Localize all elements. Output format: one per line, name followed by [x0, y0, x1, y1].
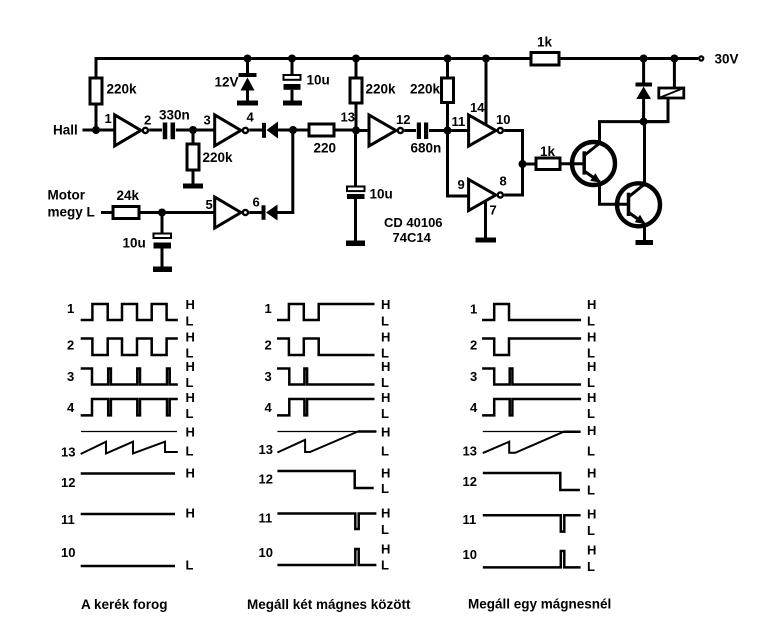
svg-text:H: H — [186, 330, 195, 345]
wire D4 to node E — [642, 99, 645, 122]
svg-text:Megáll két mágnes között: Megáll két mágnes között — [247, 597, 411, 612]
svg-text:4: 4 — [265, 400, 273, 415]
svg-text:6: 6 — [253, 195, 260, 210]
svg-text:Hall: Hall — [53, 123, 78, 138]
wire R2 to ground — [192, 170, 195, 184]
svg-text:3: 3 — [67, 369, 74, 384]
svg-text:H: H — [381, 359, 390, 374]
svg-text:L: L — [587, 444, 595, 459]
node on rail above D4 — [640, 55, 648, 63]
resistor R1 220k — [90, 78, 102, 104]
svg-text:L: L — [381, 481, 389, 496]
svg-text:10: 10 — [463, 547, 477, 562]
node col2 trace 4 — [265, 390, 391, 421]
svg-text:11: 11 — [61, 512, 75, 527]
svg-text:H: H — [186, 506, 195, 521]
svg-text:10: 10 — [61, 545, 75, 560]
svg-text:220: 220 — [314, 141, 337, 156]
node E — [640, 118, 648, 126]
svg-text:11: 11 — [259, 511, 273, 526]
node D (wired outputs) — [519, 160, 527, 168]
svg-text:10u: 10u — [123, 236, 146, 251]
resistor R8 24k — [113, 207, 139, 219]
svg-text:13: 13 — [259, 442, 273, 457]
svg-text:H: H — [186, 425, 195, 440]
svg-text:L: L — [587, 314, 595, 329]
svg-text:10: 10 — [259, 545, 273, 560]
svg-text:L: L — [186, 375, 194, 390]
node col1 trace 2 — [67, 330, 195, 361]
svg-text:L: L — [381, 406, 389, 421]
svg-text:L: L — [381, 558, 389, 573]
svg-text:12V: 12V — [215, 75, 239, 90]
node on rail above relay — [670, 55, 678, 63]
wire inverter 10 output down to node D — [504, 131, 522, 165]
wire Q2 emitter to ground — [643, 226, 646, 241]
transistor Q1 — [572, 142, 615, 185]
svg-text:3: 3 — [204, 113, 211, 128]
svg-text:H: H — [381, 425, 390, 440]
node on rail above R3 — [352, 55, 360, 63]
svg-text:3: 3 — [265, 369, 272, 384]
svg-text:9: 9 — [458, 177, 465, 192]
wire top rail left with corner above R1 — [96, 59, 531, 79]
svg-text:12: 12 — [396, 112, 410, 127]
resistor R3 220k — [350, 78, 362, 103]
svg-text:L: L — [587, 406, 595, 421]
svg-text:Megáll egy mágnesnél: Megáll egy mágnesnél — [468, 597, 611, 612]
svg-text:10: 10 — [496, 112, 510, 127]
wire node C to R5 — [293, 129, 309, 132]
svg-text:H: H — [381, 466, 390, 481]
svg-text:Motor: Motor — [48, 188, 86, 203]
wire pin 7 to ground — [484, 201, 487, 238]
op-amp U1C inverter pin13-12 — [369, 112, 410, 146]
svg-text:13: 13 — [341, 110, 355, 125]
diode D2 — [262, 205, 278, 221]
wire zener to ground — [246, 91, 249, 102]
svg-text:220k: 220k — [107, 82, 138, 97]
svg-text:8: 8 — [500, 174, 507, 189]
node col3 trace 13 — [463, 423, 597, 459]
wire node D to R7 — [523, 163, 537, 166]
svg-text:13: 13 — [463, 444, 477, 459]
wire Motor input stub — [101, 211, 113, 214]
wire node F to inverter 5 input — [162, 211, 215, 214]
svg-text:L: L — [587, 523, 595, 538]
ground under zener — [237, 101, 258, 106]
op-amp U1B inverter pin3-4 — [204, 110, 255, 146]
svg-text:330n: 330n — [159, 108, 190, 123]
wire inverter12 output to C5 — [404, 129, 416, 132]
svg-text:4: 4 — [470, 400, 478, 415]
op-amp U1A inverter pin1-2 — [105, 111, 152, 146]
wire Q2 collector up to node E — [643, 122, 646, 185]
resistor R5 220 — [309, 124, 334, 136]
node on rail for pin 14 supply — [482, 55, 490, 63]
wire relay to node E — [644, 98, 668, 122]
node B (pin 3) — [189, 126, 197, 134]
svg-text:L: L — [587, 483, 595, 498]
svg-text:CD 40106: CD 40106 — [384, 215, 443, 230]
node col3 trace 2 — [470, 330, 596, 361]
zener D3 12V — [215, 73, 257, 91]
resistor R2 220k — [187, 144, 199, 170]
node on rail above R4 — [444, 55, 452, 63]
node col1 trace 10 — [61, 545, 194, 573]
svg-text:H: H — [381, 330, 390, 345]
ground under C2 — [153, 267, 172, 273]
wire C3 to ground — [291, 90, 294, 101]
svg-text:L: L — [381, 375, 389, 390]
svg-text:L: L — [587, 375, 595, 390]
wire node 11 to inverter 14 input — [448, 129, 469, 132]
svg-text:1: 1 — [265, 301, 272, 316]
svg-text:7: 7 — [490, 203, 497, 218]
svg-text:14: 14 — [470, 100, 485, 115]
wire Hall input stub — [83, 129, 97, 132]
svg-text:H: H — [381, 390, 390, 405]
svg-text:megy L: megy L — [48, 205, 95, 220]
wire rail to C3 — [291, 59, 294, 76]
ground under R2 — [183, 184, 203, 189]
wire C5 to node 11 — [429, 129, 448, 132]
ground under Q2 — [636, 240, 654, 245]
node on rail above C3 — [288, 55, 296, 63]
wire D1 anode to node C — [278, 129, 293, 132]
svg-text:2: 2 — [144, 113, 151, 128]
wire Q1 emitter to Q2 base — [600, 182, 628, 205]
node C (diode junction) — [289, 126, 297, 134]
svg-text:13: 13 — [61, 445, 75, 460]
svg-text:11: 11 — [452, 114, 466, 129]
svg-text:H: H — [587, 466, 596, 481]
node col3 trace 4 — [470, 390, 596, 421]
capacitor C2 10u — [123, 234, 172, 251]
wire top rail right of 1k — [559, 57, 698, 60]
node col2 trace 12 — [259, 466, 391, 497]
wire rail to relay K1 — [673, 59, 676, 89]
wire R7 to Q1 base — [560, 162, 583, 165]
wire node F down to C2 — [161, 213, 164, 235]
wire node B down to R2 — [192, 130, 195, 144]
svg-text:H: H — [587, 390, 596, 405]
capacitor C1 330n — [159, 108, 190, 140]
svg-text:680n: 680n — [411, 141, 442, 156]
node col3 trace 12 — [463, 466, 597, 498]
svg-text:1k: 1k — [540, 144, 556, 159]
node col3 trace 10 — [463, 543, 597, 575]
svg-text:H: H — [587, 507, 596, 522]
wire D2 anode up to node C — [278, 130, 293, 213]
node col1 trace 13 — [61, 425, 195, 460]
svg-text:L: L — [587, 559, 595, 574]
wire rail to pin 14 — [485, 59, 488, 125]
node col2 trace 2 — [265, 330, 391, 361]
svg-text:10u: 10u — [370, 187, 393, 202]
node col3 trace 1 — [470, 297, 596, 329]
svg-text:A kerék forog: A kerék forog — [81, 597, 168, 612]
svg-text:30V: 30V — [715, 52, 739, 67]
node col1 trace 4 — [67, 390, 195, 421]
svg-text:2: 2 — [67, 338, 74, 353]
svg-text:12: 12 — [463, 474, 477, 489]
svg-text:H: H — [186, 359, 195, 374]
wire inverter1 output to C1 — [149, 129, 162, 132]
node col2 trace 13 — [259, 425, 391, 459]
resistor R7 1k — [536, 158, 560, 170]
svg-text:220k: 220k — [203, 150, 234, 165]
wire node 13 down to C4 — [354, 131, 357, 187]
svg-text:4: 4 — [247, 110, 255, 125]
node col1 trace 1 — [67, 297, 195, 329]
capacitor C5 680n — [411, 123, 442, 156]
resistor R6 1k on supply rail — [531, 53, 559, 66]
node col2 trace 3 — [265, 359, 391, 390]
svg-text:24k: 24k — [117, 188, 140, 203]
svg-text:4: 4 — [67, 400, 75, 415]
ground under C4 — [346, 241, 365, 247]
wire node 11 down to inverter 9 input — [448, 131, 469, 197]
node col1 trace 12 — [61, 466, 195, 491]
svg-text:H: H — [186, 466, 195, 481]
wire R1 bottom to node A — [95, 104, 98, 130]
wire C4 to ground — [354, 199, 357, 241]
svg-text:L: L — [186, 406, 194, 421]
node on rail above zener — [244, 55, 252, 63]
wire node A to inverter 1 input — [96, 129, 115, 132]
wire node B to inverter 3 input — [193, 129, 215, 132]
node 13 — [352, 126, 360, 134]
svg-text:H: H — [381, 542, 390, 557]
svg-text:H: H — [587, 330, 596, 345]
node col3 trace 3 — [470, 359, 596, 390]
wire rail to zener D3 — [246, 59, 249, 74]
node col2 trace 10 — [259, 542, 391, 573]
svg-text:H: H — [587, 543, 596, 558]
node col2 trace 1 — [265, 297, 391, 329]
resistor R4 220k — [442, 78, 454, 103]
svg-text:L: L — [186, 314, 194, 329]
node col3 trace 11 — [463, 507, 597, 539]
svg-text:H: H — [381, 297, 390, 312]
op-amp U1E inverter pin9-8 — [458, 174, 507, 218]
node col1 trace 11 — [61, 506, 195, 528]
svg-text:1: 1 — [470, 302, 477, 317]
svg-text:220k: 220k — [410, 82, 441, 97]
svg-text:H: H — [587, 359, 596, 374]
svg-text:H: H — [186, 297, 195, 312]
svg-text:1: 1 — [105, 111, 112, 126]
svg-text:3: 3 — [470, 369, 477, 384]
svg-text:11: 11 — [463, 512, 477, 527]
svg-text:2: 2 — [265, 338, 272, 353]
wire rail to R3 — [355, 59, 358, 79]
op-amp U1D inverter pin11-10 — [469, 100, 511, 146]
wire C1 to node B — [176, 129, 193, 132]
svg-text:L: L — [381, 444, 389, 459]
svg-text:L: L — [381, 314, 389, 329]
svg-text:H: H — [381, 506, 390, 521]
wire R5 to node 13 — [334, 129, 356, 132]
node col2 trace 11 — [259, 506, 391, 538]
svg-text:12: 12 — [61, 475, 75, 490]
svg-text:L: L — [186, 558, 194, 573]
svg-text:5: 5 — [206, 197, 213, 212]
wire R8 to node F — [139, 211, 162, 214]
svg-text:1k: 1k — [537, 35, 553, 50]
capacitor C3 10u — [284, 73, 330, 90]
diode D1 — [262, 122, 278, 139]
svg-text:1: 1 — [67, 301, 74, 316]
wire C2 to ground — [161, 248, 164, 267]
svg-text:H: H — [186, 390, 195, 405]
svg-text:L: L — [186, 444, 194, 459]
ground pin 7 — [476, 238, 497, 243]
wire rail to R4 — [446, 59, 449, 79]
terminal 30V — [699, 52, 738, 67]
wire node 13 to inverter 12 input — [356, 129, 369, 132]
svg-text:220k: 220k — [366, 82, 397, 97]
node 11 — [444, 127, 452, 135]
node A (Hall) — [92, 126, 100, 134]
wire inverter 8 output up to node D — [504, 164, 522, 195]
wire Q1 collector up to node E rail — [600, 122, 669, 143]
wire R3 to node 13 — [355, 103, 358, 131]
relay K1 coil — [659, 88, 684, 98]
svg-text:H: H — [587, 297, 596, 312]
svg-text:10u: 10u — [307, 73, 330, 88]
node F — [158, 209, 166, 217]
wire R4 to node 11 — [446, 103, 449, 131]
svg-text:74C14: 74C14 — [393, 230, 432, 245]
svg-text:12: 12 — [259, 472, 273, 487]
ground under C3 — [283, 101, 302, 106]
wire inverter5 output to D2 — [249, 211, 261, 214]
svg-text:H: H — [587, 423, 596, 438]
wire rail to D4 — [642, 59, 645, 84]
transistor Q2 — [617, 183, 660, 226]
op-amp U1F inverter pin5-6 — [206, 195, 260, 229]
node col1 trace 3 — [67, 359, 195, 390]
svg-text:L: L — [381, 522, 389, 537]
wire inverter3 output to D1 — [249, 129, 262, 132]
capacitor C4 10u — [347, 187, 393, 202]
svg-text:2: 2 — [470, 338, 477, 353]
diode D4 flyback — [636, 83, 653, 100]
